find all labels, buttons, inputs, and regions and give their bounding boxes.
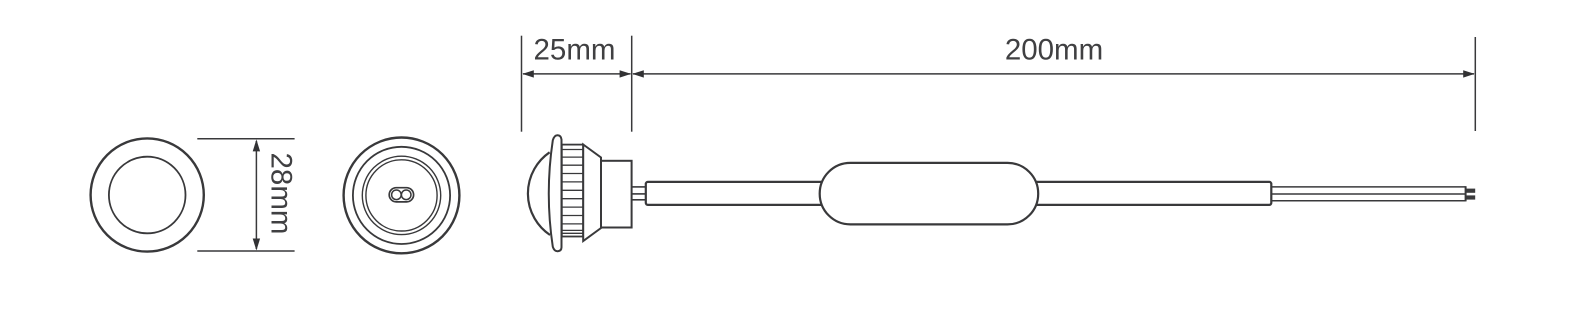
200mm right arrow (1463, 70, 1475, 77)
25mm dimension line (523, 73, 631, 75)
200mm dimension line (633, 73, 1474, 75)
svg-text:28mm: 28mm (265, 153, 298, 235)
rear view ring 4 (366, 160, 437, 231)
housing wire middle line (632, 193, 646, 195)
grommet right hole (401, 190, 411, 200)
rear housing (601, 161, 632, 228)
rear view ring 2 (353, 147, 450, 244)
rear view ring 3 (362, 156, 440, 234)
200mm right extension line (1474, 37, 1476, 131)
28mm dimension line (255, 141, 257, 249)
grommet stadium (389, 188, 413, 202)
inline driver oval (820, 163, 1038, 225)
thread line 5 (562, 181, 583, 183)
cable sheath (646, 182, 1272, 205)
28mm arrow up (253, 139, 260, 151)
thread line 8 (562, 206, 583, 208)
front view inner circle (109, 157, 186, 234)
twin lead top line (1271, 186, 1465, 188)
twin lead bottom line (1271, 200, 1465, 202)
28mm top extension line (197, 138, 294, 140)
twin lead end cap (1465, 186, 1467, 201)
retaining nut (583, 145, 601, 242)
svg-text:200mm: 200mm (1005, 34, 1103, 67)
200mm left arrow (632, 70, 644, 77)
rear view outer circle (344, 138, 460, 254)
thread line 10 (562, 223, 583, 225)
thread line 7 (562, 198, 583, 200)
lens dome arc (528, 152, 550, 235)
25mm left arrow (522, 70, 534, 77)
housing wire top line (632, 186, 646, 188)
25mm left extension line (521, 36, 523, 132)
svg-text:25mm: 25mm (534, 34, 616, 67)
grommet left hole (392, 190, 402, 200)
25mm right arrow (620, 70, 632, 77)
thread line 1 (562, 149, 583, 151)
front view outer circle (91, 138, 204, 251)
thread line 2 (562, 156, 583, 158)
thread line 9 (562, 215, 583, 217)
28mm bottom extension line (197, 250, 294, 252)
thread line 4 (562, 173, 583, 175)
threaded barrel outline (562, 145, 583, 237)
bezel flange (549, 135, 562, 251)
thread line 12 (562, 232, 583, 234)
thread line 11 (562, 229, 583, 231)
28mm arrow down (253, 239, 260, 251)
stripped tip top (1466, 189, 1476, 193)
housing wire bottom line (632, 199, 646, 201)
twin lead middle line (1271, 193, 1465, 195)
thread line 6 (562, 189, 583, 191)
stripped tip bottom (1466, 195, 1476, 199)
thread line 3 (562, 164, 583, 166)
25mm/200mm shared extension line (631, 36, 633, 132)
